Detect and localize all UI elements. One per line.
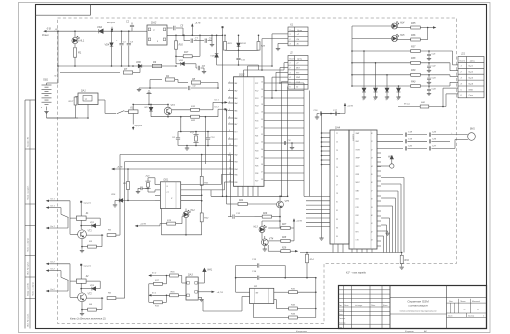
capacitor C16 — [317, 113, 320, 115]
capacitor C12 — [228, 216, 232, 218]
svg-text:вкл.реж: вкл.реж — [107, 22, 115, 24]
transistor VT2 — [78, 293, 87, 302]
svg-text:Разраб.: Разраб. — [339, 310, 346, 312]
svg-text:HL5: HL5 — [400, 34, 405, 37]
resistor R8 DD1 — [127, 182, 130, 190]
svg-text:Цепь: Цепь — [297, 59, 303, 61]
resistor R16 audio — [152, 275, 169, 277]
svg-text:Конт: Конт — [460, 61, 466, 63]
resistor R35 — [411, 26, 421, 29]
resistor R20 — [191, 115, 200, 118]
verticals left of DD2 — [226, 111, 228, 205]
svg-text:Справ. №: Справ. № — [26, 136, 29, 147]
capacitor C1 polarized — [121, 31, 123, 43]
svg-text:РА6: РА6 — [234, 117, 237, 120]
resistor R28 — [281, 239, 290, 242]
svg-text:1: 1 — [461, 66, 462, 68]
switch contacts Кл 2 — [47, 263, 50, 265]
stub emitter to crystal rail — [180, 117, 182, 132]
svg-text:Лист: Лист — [447, 316, 453, 318]
wire DA1 to switch — [98, 99, 105, 101]
diode VD14 — [398, 86, 400, 88]
svg-text:25: 25 — [260, 156, 263, 158]
wire emitter row — [151, 116, 191, 118]
svg-text:R29: R29 — [282, 247, 287, 249]
svg-text:Инв. № дубл.: Инв. № дубл. — [26, 261, 29, 275]
svg-text:РD5: РD5 — [255, 166, 258, 168]
wire DA2 out — [167, 34, 223, 36]
LED HL2 — [183, 212, 189, 218]
svg-text:CTS: CTS — [356, 240, 359, 242]
resistor R24 — [227, 203, 238, 205]
svg-text:DD2: DD2 — [239, 72, 245, 76]
svg-text:РА7: РА7 — [234, 123, 237, 126]
resistor R21 — [201, 155, 203, 177]
svg-text:Цепь: Цепь — [297, 30, 303, 32]
svg-text:20: 20 — [260, 119, 263, 121]
ground C4 row — [139, 87, 150, 89]
resistor R29 — [281, 250, 290, 253]
resistor R5 — [86, 234, 103, 236]
svg-text:K2: K2 — [336, 210, 338, 212]
wire branch battery — [57, 66, 59, 83]
svg-text:РВ5: РВ5 — [234, 175, 237, 177]
svg-text:РС7: РС7 — [255, 128, 258, 130]
resistor R17 — [183, 55, 192, 58]
converter DA1 — [78, 93, 98, 105]
svg-text:Лит.: Лит. — [448, 301, 453, 303]
svg-text:РА2: РА2 — [234, 90, 237, 93]
label Kl1 in — [149, 294, 152, 296]
svg-text:РА4: РА4 — [234, 102, 237, 105]
capacitor C10 — [207, 135, 209, 138]
svg-text:K3: K3 — [336, 219, 338, 221]
svg-text:15: 15 — [261, 81, 263, 83]
svg-text:Кл 1: Кл 1 — [51, 199, 55, 201]
capacitor C20 — [404, 146, 406, 150]
svg-text:ZQ1: ZQ1 — [145, 176, 150, 178]
svg-text:РС4: РС4 — [255, 105, 258, 108]
resistor R1 — [73, 48, 76, 57]
svg-text:РВ3: РВ3 — [234, 162, 237, 164]
svg-text:TEMP: TEMP — [356, 158, 360, 160]
capacitor C18 — [404, 133, 406, 137]
resistor R31 — [274, 291, 289, 293]
diode VD2 — [99, 29, 103, 33]
GSM module DA4 left box — [330, 130, 349, 244]
svg-text:R36: R36 — [411, 34, 416, 37]
resistor R25 — [257, 42, 260, 51]
svg-text:Дата: Дата — [382, 305, 388, 307]
svg-text:РD6: РD6 — [255, 173, 258, 175]
resistor R16 — [175, 41, 178, 49]
riser channel 1 — [119, 155, 121, 236]
svg-text:+4,7В: +4,7В — [117, 166, 123, 169]
svg-text:РВ4: РВ4 — [234, 168, 237, 171]
svg-text:VT3: VT3 — [171, 105, 176, 107]
capacitor C15 — [283, 141, 285, 145]
svg-text:Подп. и дата: Подп. и дата — [32, 282, 35, 296]
svg-text:R27: R27 — [282, 224, 287, 226]
svg-text:Канал 2и Внешние включения (2): Канал 2и Внешние включения (2) — [70, 319, 106, 321]
resistor R34 — [401, 253, 403, 256]
svg-text:26: 26 — [260, 164, 263, 166]
svg-text:РС2: РС2 — [255, 91, 258, 93]
title block right cells — [446, 286, 448, 329]
svg-text:РС1: РС1 — [255, 83, 258, 85]
svg-text:R38: R38 — [411, 57, 416, 60]
title block left table — [343, 286, 345, 329]
power +4.7 DA3 — [198, 291, 211, 293]
svg-text:K1: K1 — [336, 202, 338, 204]
switch SA1 — [105, 112, 116, 114]
relay К2 coil — [76, 279, 86, 283]
svg-text:R28: R28 — [282, 237, 287, 239]
wire battery to DA1 — [46, 112, 48, 119]
svg-text:VT1: VT1 — [88, 230, 93, 232]
svg-text:DA3: DA3 — [188, 274, 193, 277]
svg-text:Кл 1: Кл 1 — [51, 205, 55, 207]
ground stub DA4 right — [381, 230, 388, 232]
power square К2 — [80, 264, 82, 266]
capacitor C8 — [195, 64, 197, 68]
svg-text:ZQ1: ZQ1 — [189, 132, 195, 134]
svg-text:XТ2: XТ2 — [233, 139, 237, 141]
svg-text:Кл 1: Кл 1 — [152, 292, 156, 294]
capacitor C11 — [238, 50, 240, 57]
resistor R26 — [262, 215, 271, 218]
wire loop top — [236, 265, 257, 267]
svg-text:R1: R1 — [78, 51, 82, 55]
DD1 right pins to DD2 — [181, 184, 222, 186]
trunk vertical top right — [351, 26, 353, 86]
svg-text:4: 4 — [290, 76, 291, 79]
riser channel 2 — [124, 162, 126, 299]
resistor R33 — [252, 304, 254, 318]
svg-text:1: 1 — [290, 34, 291, 36]
svg-text:17: 17 — [261, 96, 263, 98]
power rail 4.7 DD1 — [136, 225, 139, 227]
crystal ZQ2 — [195, 136, 198, 141]
svg-text:1: 1 — [290, 63, 291, 65]
power terminal square — [222, 26, 224, 28]
resistor R14 — [306, 254, 309, 263]
capacitor C7 — [184, 40, 190, 42]
svg-text:NRST: NRST — [356, 182, 360, 184]
svg-text:HL4: HL4 — [400, 22, 405, 25]
svg-text:27: 27 — [260, 171, 263, 173]
DA4 right lower pins — [377, 152, 381, 154]
svg-text:Л1: Л1 — [53, 76, 56, 78]
capacitor C21 — [428, 51, 430, 54]
capacitor C24 — [428, 86, 430, 89]
ground VT4 — [263, 248, 267, 250]
svg-text:R37: R37 — [411, 45, 416, 48]
label Kl2 wire — [224, 108, 227, 110]
svg-text:GB1: GB1 — [43, 79, 49, 82]
svg-text:VD2: VD2 — [97, 25, 103, 29]
diode VD10 — [238, 35, 240, 43]
svg-text:SIM300: SIM300 — [352, 134, 354, 142]
diode VD1 — [80, 220, 82, 229]
svg-text:Взам. инв.№: Взам. инв.№ — [26, 282, 29, 296]
transistor VT3 — [164, 107, 172, 115]
DA4 bottom pins — [351, 249, 353, 253]
svg-text:XТ1: XТ1 — [233, 132, 237, 134]
resistor R17 audio — [154, 282, 163, 285]
svg-text:+4,7В: +4,7В — [140, 223, 146, 226]
svg-text:РD3: РD3 — [255, 151, 258, 153]
voltage regulator DA2 — [147, 25, 167, 45]
wire crystal top — [177, 132, 179, 135]
bus corner to DA4 — [304, 195, 306, 197]
resistor R19 — [167, 222, 176, 225]
svg-text:10: 10 — [229, 144, 231, 146]
ground rail wire — [58, 65, 176, 67]
svg-text:Эк: Эк — [297, 44, 299, 46]
resistor R27 — [281, 227, 290, 230]
resistor R13 — [74, 97, 77, 105]
svg-text:РА1: РА1 — [234, 82, 237, 85]
svg-text:РD1: РD1 — [255, 136, 258, 138]
svg-text:R24: R24 — [239, 199, 244, 202]
svg-text:R35: R35 — [411, 22, 416, 25]
resistor R22 — [201, 201, 203, 213]
svg-text:28: 28 — [260, 179, 263, 181]
diode VD8 — [181, 62, 185, 66]
svg-text:C6: C6 — [336, 176, 338, 178]
svg-text:Кир1: Кир1 — [469, 66, 474, 68]
resistor R39 row — [352, 74, 411, 76]
svg-text:RTS: RTS — [356, 231, 359, 233]
svg-text:№ докум.: № докум. — [355, 304, 363, 307]
resistor R4 — [88, 308, 97, 311]
wire left vertical DA3 — [148, 284, 150, 303]
diode VD9 — [216, 35, 218, 53]
capacitor C17 — [331, 113, 335, 115]
capacitor C25 — [428, 133, 430, 137]
label Kl1 wire — [224, 101, 227, 103]
svg-text:РА3: РА3 — [234, 97, 237, 100]
svg-text:VT4: VT4 — [269, 238, 274, 241]
rail y196 — [211, 195, 288, 197]
resistor R7 — [60, 72, 120, 74]
wire DA1 bottom — [87, 105, 89, 119]
svg-text:VD6: VD6 — [136, 61, 141, 64]
svg-text:R34: R34 — [405, 259, 410, 262]
diode VD12 — [375, 63, 377, 88]
capacitor C27 — [428, 146, 430, 150]
resistor R40 row — [352, 85, 411, 87]
transistor VT4 — [261, 239, 268, 246]
svg-text:VT2: VT2 — [88, 293, 93, 295]
svg-text:–: – — [476, 307, 479, 311]
wire rail K3 — [133, 103, 168, 105]
capacitor C22 — [428, 63, 430, 66]
svg-text:11: 11 — [229, 153, 231, 155]
LED HL1 — [72, 37, 78, 43]
DD2 top pins — [243, 70, 245, 77]
power +4.7 tap — [191, 24, 193, 28]
svg-text:6: 6 — [290, 87, 291, 89]
svg-text:Пров.: Пров. — [339, 314, 344, 316]
svg-text:R40: R40 — [411, 80, 416, 83]
power rail K3 — [147, 93, 152, 95]
svg-text:C1: C1 — [336, 133, 338, 135]
capacitor C26 — [428, 139, 430, 143]
svg-text:Инв. № подл.: Инв. № подл. — [26, 313, 29, 327]
capacitor C5 — [167, 27, 173, 29]
microcontroller DD2 — [234, 77, 265, 187]
diode VD6 — [138, 64, 142, 68]
svg-text:Масса: Масса — [461, 301, 466, 303]
svg-text:VD4: VD4 — [105, 44, 110, 47]
resistor R15 — [152, 294, 169, 296]
capacitor C30 — [140, 187, 142, 191]
svg-text:WA1: WA1 — [207, 269, 213, 272]
power +4.7 arrow DA4 — [344, 104, 346, 108]
DD2 left pin stubs — [228, 82, 234, 84]
op-amp DA3 — [186, 277, 198, 300]
wire crystal bottom — [177, 143, 179, 146]
svg-text:Подп. и дата: Подп. и дата — [26, 238, 29, 252]
ground DA3 — [198, 296, 201, 298]
svg-text:HL2: HL2 — [191, 210, 196, 212]
svg-text:R13*: R13* — [69, 101, 74, 103]
GSM module DA4 right box — [349, 130, 377, 249]
svg-text:+4,7 В: +4,7 В — [217, 291, 224, 294]
resistor R32 — [274, 299, 277, 301]
svg-text:22: 22 — [260, 134, 263, 136]
resistor R36 — [411, 38, 421, 41]
DD2 bottom pins — [237, 186, 239, 196]
svg-text:РВ1: РВ1 — [234, 146, 237, 148]
ground VT1 — [81, 247, 83, 250]
svg-text:РС5: РС5 — [255, 113, 258, 115]
svg-text:РD4: РD4 — [255, 157, 258, 160]
svg-text:пар.реж: пар.реж — [84, 265, 92, 267]
ground battery — [44, 111, 48, 113]
svg-text:РС6: РС6 — [255, 121, 258, 123]
svg-text:HL1: HL1 — [80, 39, 85, 43]
svg-text:Подп.: Подп. — [371, 304, 376, 307]
svg-text:Х1: Х1 — [289, 24, 294, 27]
svg-text:R39: R39 — [411, 69, 416, 72]
svg-text:16: 16 — [261, 89, 263, 91]
X1 wires — [272, 33, 288, 35]
svg-text:–: – — [463, 307, 466, 311]
wire mid net — [225, 49, 259, 51]
resistor R23 — [224, 42, 227, 51]
svg-text:пар.реж: пар.реж — [135, 125, 143, 127]
diode VD11 — [363, 51, 365, 88]
svg-text:K5: K5 — [336, 236, 338, 238]
resistor R38 row — [352, 62, 411, 64]
svg-text:2: 2 — [289, 68, 291, 70]
rails to DD2 — [120, 154, 228, 156]
svg-text:Листов: Листов — [467, 316, 474, 318]
diode VD13 — [386, 75, 388, 88]
svg-text:8: 8 — [157, 41, 158, 43]
antenna WA1 — [203, 268, 206, 271]
wire power rail — [48, 30, 96, 32]
svg-text:+4,7В: +4,7В — [296, 220, 302, 223]
title block doc number cell — [390, 297, 487, 299]
svg-text:Лист: Лист — [343, 305, 349, 307]
svg-text:23: 23 — [260, 141, 263, 143]
svg-text:+4,7В: +4,7В — [195, 22, 201, 25]
J2 wires — [284, 62, 288, 64]
capacitor C2 — [131, 27, 133, 31]
svg-text:DA2: DA2 — [151, 21, 157, 25]
svg-text:Кл 1: Кл 1 — [51, 226, 55, 228]
resistor R10 — [191, 108, 200, 111]
svg-text:C7: C7 — [336, 184, 338, 186]
svg-text:Эк: Эк — [296, 87, 298, 89]
diode VD4 capacitor C1 C3 branch — [57, 31, 59, 66]
svg-text:C2: C2 — [336, 141, 338, 143]
DA4 left pins lower — [306, 196, 330, 198]
LED HL3 — [259, 227, 265, 233]
DA4 left pins upper — [324, 132, 330, 134]
capacitor C9 — [204, 39, 206, 43]
svg-text:ВМ1: ВМ1 — [470, 129, 475, 131]
resistor R2 row — [150, 79, 162, 81]
wire battery top — [47, 82, 59, 84]
svg-text:VT5: VT5 — [285, 200, 290, 203]
LED HL5 — [392, 36, 398, 42]
svg-text:сигнализация: сигнализация — [408, 304, 428, 308]
capacitor C4 — [149, 87, 151, 89]
DD1 left pins — [155, 184, 160, 186]
ground crystal — [185, 147, 189, 149]
svg-text:-5 В: -5 В — [46, 26, 51, 30]
trunk x222 vertical — [222, 35, 224, 103]
power square К1 — [80, 201, 82, 203]
svg-text:Н.контр.: Н.контр. — [339, 323, 347, 325]
capacitor C3 — [128, 31, 130, 43]
resistor R8 row — [178, 82, 188, 84]
svg-text:Кл 1: Кл 1 — [215, 100, 219, 102]
resistor R3 — [88, 245, 97, 248]
capacitor C23 — [428, 75, 430, 78]
dashed functional boundary — [58, 18, 457, 324]
svg-text:РС3: РС3 — [255, 98, 258, 100]
A1 left wires — [236, 291, 250, 293]
svg-text:1: 1 — [483, 316, 484, 318]
resistor R6 — [86, 297, 103, 299]
DD2 right pin stubs and bus — [264, 82, 304, 84]
svg-text:3: 3 — [290, 72, 291, 74]
resistor R11 — [154, 301, 163, 304]
rail below DA4 — [300, 252, 402, 254]
capacitor C6 — [177, 135, 179, 138]
relay K1.1 coil — [129, 110, 139, 114]
svg-text:РВ6: РВ6 — [234, 182, 237, 184]
svg-text:18: 18 — [261, 104, 263, 106]
svg-text:COR: COR — [296, 82, 301, 84]
svg-text:C3: C3 — [336, 150, 338, 152]
top-left stamp box — [35, 14, 91, 16]
DA4 right wires out — [381, 177, 404, 179]
diode VD2 — [80, 283, 82, 292]
svg-text:+4,7В: +4,7В — [347, 105, 353, 108]
svg-text:Схема электрическая принципиал: Схема электрическая принципиальная — [400, 311, 438, 313]
svg-text:R16: R16 — [179, 45, 184, 47]
svg-text:GND: GND — [469, 89, 474, 91]
resistor R9 — [152, 64, 161, 67]
DA4 right pins audio — [377, 134, 403, 136]
